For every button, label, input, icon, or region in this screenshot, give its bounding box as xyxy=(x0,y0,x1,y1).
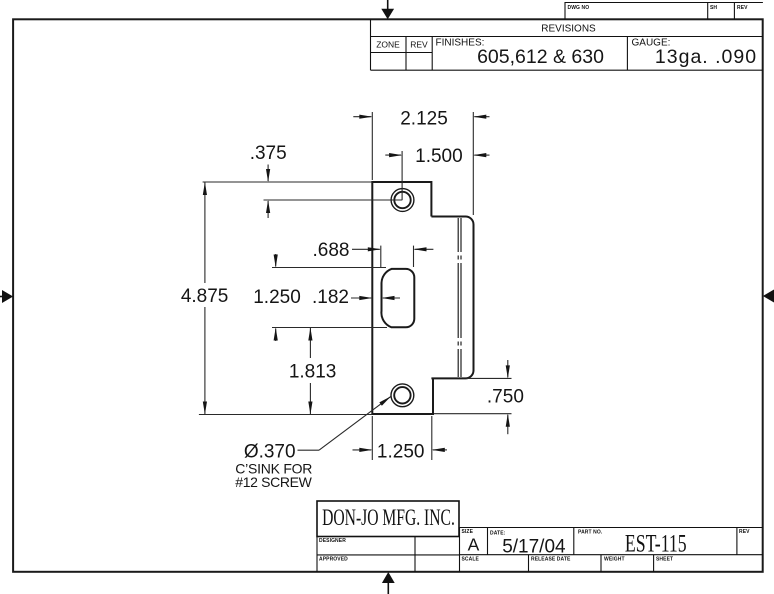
svg-text:REVISIONS: REVISIONS xyxy=(541,24,596,35)
svg-text:APPROVED: APPROVED xyxy=(319,557,348,563)
dimension 1.250 cutout height xyxy=(272,254,387,341)
registration arrow top xyxy=(381,0,394,19)
svg-text:2.125: 2.125 xyxy=(400,108,448,129)
svg-text:.375: .375 xyxy=(250,143,287,164)
svg-text:5/17/04: 5/17/04 xyxy=(502,537,566,558)
svg-text:4.875: 4.875 xyxy=(181,286,229,307)
registration arrow left xyxy=(0,290,13,303)
svg-text:WEIGHT: WEIGHT xyxy=(604,557,625,563)
svg-text:#12 SCREW: #12 SCREW xyxy=(235,474,312,490)
dimension 1.813 xyxy=(309,328,311,415)
dimension .182 xyxy=(351,297,400,299)
svg-text:DWG NO: DWG NO xyxy=(568,5,590,11)
dimension 1.250 bottom xyxy=(353,416,448,460)
svg-text:DON-JO MFG. INC.: DON-JO MFG. INC. xyxy=(322,505,455,531)
dwg-no strip above border xyxy=(565,3,763,20)
svg-text:EST-115: EST-115 xyxy=(625,530,687,558)
svg-text:1.250: 1.250 xyxy=(377,442,425,463)
svg-text:SH: SH xyxy=(710,5,717,11)
bottom mounting hole xyxy=(391,384,414,407)
svg-text:A: A xyxy=(468,535,480,555)
svg-text:SCALE: SCALE xyxy=(462,557,480,563)
svg-text:605,612 & 630: 605,612 & 630 xyxy=(477,46,604,68)
bend lines xyxy=(458,218,461,377)
dimension .688 xyxy=(352,246,433,267)
svg-text:SHEET: SHEET xyxy=(656,557,673,563)
revisions table xyxy=(371,19,763,70)
svg-text:.182: .182 xyxy=(312,287,349,308)
plate outline xyxy=(372,182,473,414)
svg-text:REV: REV xyxy=(737,5,748,11)
registration arrow right xyxy=(763,290,774,303)
svg-text:REV: REV xyxy=(739,529,750,535)
title block xyxy=(317,501,459,537)
leader dia .370 countersink xyxy=(298,396,392,450)
dimension 1.500 xyxy=(385,151,489,200)
svg-text:PART NO.: PART NO. xyxy=(578,530,603,536)
svg-text:1.500: 1.500 xyxy=(415,146,463,167)
svg-text:DESIGNER: DESIGNER xyxy=(319,538,346,544)
dimension 4.875 xyxy=(199,182,372,415)
svg-text:.688: .688 xyxy=(313,240,350,261)
top mounting hole xyxy=(391,189,414,212)
svg-text:1.813: 1.813 xyxy=(289,362,337,383)
registration arrow bottom xyxy=(382,572,395,594)
lip flange xyxy=(431,217,473,379)
dimension .375 xyxy=(203,165,403,219)
dimension .750 xyxy=(434,360,512,434)
dimension 2.125 xyxy=(353,112,489,215)
latch cutout xyxy=(381,269,414,327)
svg-text:13ga. .090: 13ga. .090 xyxy=(655,46,757,68)
svg-text:.750: .750 xyxy=(487,386,524,407)
svg-text:1.250: 1.250 xyxy=(253,287,301,308)
svg-text:ZONE: ZONE xyxy=(376,40,400,50)
svg-text:REV: REV xyxy=(410,40,428,50)
